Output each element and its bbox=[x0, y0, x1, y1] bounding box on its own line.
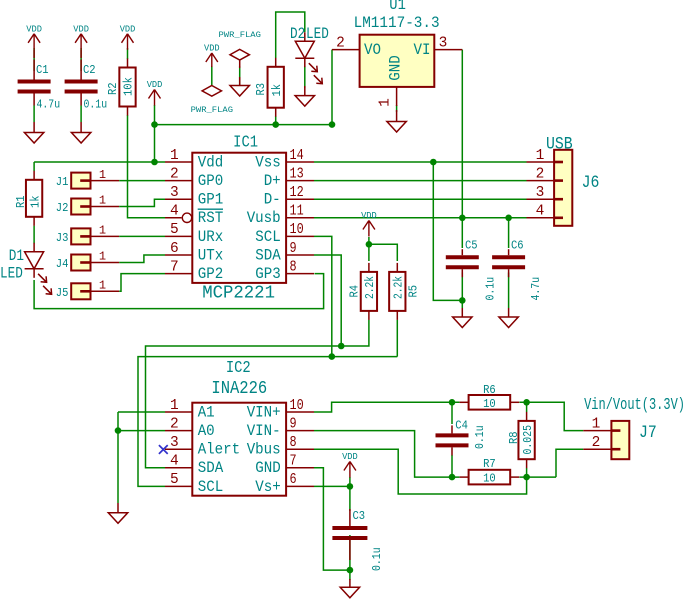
IC1 pin 14 (Vss) bbox=[255, 148, 314, 172]
svg-text:VDD: VDD bbox=[361, 211, 377, 221]
wire VBUS to C5 top bbox=[461, 218, 463, 248]
junction bbox=[459, 297, 466, 304]
svg-text:1: 1 bbox=[99, 224, 106, 238]
svg-text:VIN+: VIN+ bbox=[247, 403, 281, 421]
svg-text:C4: C4 bbox=[455, 418, 468, 432]
wire J2 to GP1 bbox=[119, 199, 165, 206]
wire C3 bottom bbox=[349, 535, 351, 570]
IC2 INA226 body bbox=[192, 403, 286, 496]
svg-text:SDA: SDA bbox=[198, 459, 224, 477]
wire VIN+ to R6 bbox=[314, 402, 460, 412]
svg-text:IC2: IC2 bbox=[226, 358, 251, 377]
wire VDD to PWR_FLAG stem bbox=[211, 66, 213, 85]
regulator U1 LM1117-3.3 body bbox=[360, 35, 435, 87]
connector J3 bbox=[71, 228, 119, 244]
wire VDD rail to IC1 pin1 bbox=[34, 161, 165, 163]
resistor R1 box bbox=[26, 171, 42, 226]
junction bbox=[151, 159, 158, 166]
J6 pin 1 bbox=[527, 148, 555, 164]
svg-text:R7: R7 bbox=[483, 457, 496, 471]
wire R8 bottom bbox=[526, 468, 528, 477]
svg-text:VI: VI bbox=[414, 41, 431, 59]
svg-text:3: 3 bbox=[536, 185, 545, 201]
svg-text:D2: D2 bbox=[290, 25, 305, 43]
svg-text:14: 14 bbox=[290, 148, 304, 164]
wire VIN- to R7 bbox=[314, 431, 460, 478]
junction bbox=[459, 215, 466, 222]
IC1 pin 9 (SDA) bbox=[255, 241, 314, 265]
junction bbox=[347, 567, 354, 574]
wire R2 bottom to RST bbox=[128, 115, 166, 218]
svg-text:MCP2221: MCP2221 bbox=[202, 282, 275, 303]
wire D2 cathode to ground bbox=[304, 66, 306, 88]
svg-text:VDD: VDD bbox=[204, 44, 220, 54]
svg-text:6: 6 bbox=[170, 241, 179, 257]
IC1 pin 6 (UTx) bbox=[165, 241, 223, 265]
svg-text:13: 13 bbox=[290, 166, 304, 182]
svg-text:J6: J6 bbox=[582, 173, 600, 193]
svg-text:9: 9 bbox=[290, 416, 297, 432]
power VDD (R2) bbox=[120, 24, 136, 50]
svg-text:R4: R4 bbox=[348, 285, 362, 298]
svg-text:0.1u: 0.1u bbox=[484, 277, 498, 301]
junction bbox=[430, 159, 437, 166]
J6 pin 4 bbox=[527, 204, 555, 220]
IC1 pin 11 (Vusb) bbox=[247, 204, 314, 228]
wire C4 bottom to R7 row bbox=[451, 455, 453, 477]
svg-text:1: 1 bbox=[170, 398, 179, 414]
junction bbox=[151, 121, 158, 128]
wire R6 right to J7 pin1 bbox=[519, 402, 583, 430]
svg-text:2: 2 bbox=[536, 166, 545, 182]
IC2 pin 1 (A1) bbox=[165, 398, 215, 422]
svg-text:LED: LED bbox=[306, 25, 329, 43]
IC2 pin 2 (A0) bbox=[165, 416, 215, 440]
wire IC2 A1 to ground net bbox=[118, 411, 165, 413]
IC1 pin 7 (GP2) bbox=[165, 259, 223, 283]
svg-text:4: 4 bbox=[536, 204, 545, 220]
IC2 pin 10 (VIN+) bbox=[247, 398, 314, 422]
svg-text:INA226: INA226 bbox=[211, 378, 267, 399]
capacitor C6 plates bbox=[492, 249, 525, 277]
svg-text:J1: J1 bbox=[56, 175, 69, 189]
svg-text:1k: 1k bbox=[28, 195, 42, 208]
wire VDD to C1 bbox=[33, 48, 35, 71]
svg-text:2: 2 bbox=[170, 166, 179, 182]
wire C1 to ground bbox=[33, 106, 35, 123]
wire R3 top to D2 anode bbox=[276, 12, 305, 58]
svg-text:R1: R1 bbox=[14, 195, 28, 208]
svg-text:Vin/Vout(3.3V): Vin/Vout(3.3V) bbox=[584, 396, 685, 415]
wire SCL up to R5 bottom bbox=[396, 320, 398, 357]
LED D2 symbol bbox=[295, 32, 322, 83]
svg-text:J4: J4 bbox=[56, 257, 69, 271]
J7 pin 2 bbox=[583, 435, 611, 451]
svg-text:0.025: 0.025 bbox=[521, 425, 535, 455]
IC1 pin 10 (SCL) bbox=[255, 222, 314, 246]
svg-text:1k: 1k bbox=[270, 84, 284, 97]
svg-text:GP0: GP0 bbox=[198, 172, 224, 190]
U1 pin 2 (VO) bbox=[332, 35, 381, 59]
svg-text:1: 1 bbox=[378, 98, 394, 107]
wire to ground bbox=[349, 570, 351, 580]
svg-text:J7: J7 bbox=[639, 423, 657, 443]
wire rail to R1 top bbox=[33, 162, 35, 171]
wire to R8 top bbox=[526, 402, 528, 412]
resistor R8 box bbox=[518, 412, 534, 468]
svg-text:0.1u: 0.1u bbox=[473, 425, 487, 449]
svg-text:D1: D1 bbox=[9, 247, 24, 265]
ground under C6 bbox=[499, 317, 518, 328]
svg-text:VDD: VDD bbox=[73, 24, 89, 34]
junction bbox=[523, 399, 530, 406]
junction bbox=[329, 121, 336, 128]
wire SDA to R4 bottom bbox=[341, 320, 369, 346]
svg-text:2: 2 bbox=[592, 435, 601, 451]
ground under C3 bbox=[340, 587, 359, 598]
IC1 pin 1 (Vdd) bbox=[165, 148, 223, 172]
svg-text:A0: A0 bbox=[198, 422, 215, 440]
J7 pin 1 bbox=[583, 416, 611, 432]
wire rail up to U1 VO bbox=[331, 50, 333, 125]
svg-text:10k: 10k bbox=[122, 77, 136, 96]
svg-text:PWR_FLAG: PWR_FLAG bbox=[191, 106, 234, 115]
capacitor C3 plates bbox=[332, 509, 367, 560]
capacitor C1 plates bbox=[18, 60, 51, 106]
svg-text:C2: C2 bbox=[83, 63, 96, 77]
wire Vusb to USB pin4 bbox=[314, 217, 527, 219]
wire VDD to C2 bbox=[80, 48, 82, 71]
wire J3 to URx bbox=[119, 235, 165, 237]
svg-text:10: 10 bbox=[483, 397, 496, 411]
wire R6 row to C4 top bbox=[451, 402, 453, 424]
svg-text:R6: R6 bbox=[483, 383, 496, 397]
wire SCL from IC1 pin10 bbox=[314, 236, 397, 356]
wire D- to USB pin3 bbox=[314, 198, 527, 200]
svg-text:12: 12 bbox=[290, 185, 304, 201]
svg-text:R8: R8 bbox=[507, 431, 521, 444]
wire VDD to R2 bbox=[127, 48, 129, 59]
svg-text:Vss: Vss bbox=[255, 153, 281, 171]
wire IC2 A0 to ground net bbox=[118, 430, 165, 432]
svg-text:2: 2 bbox=[170, 416, 179, 432]
svg-text:10: 10 bbox=[290, 222, 304, 238]
svg-text:7: 7 bbox=[290, 454, 297, 470]
svg-text:R5: R5 bbox=[407, 285, 421, 298]
svg-text:3: 3 bbox=[170, 185, 179, 201]
svg-text:U1: U1 bbox=[389, 0, 406, 14]
svg-text:2.2k: 2.2k bbox=[363, 276, 377, 299]
svg-text:C6: C6 bbox=[511, 238, 524, 252]
svg-text:10: 10 bbox=[483, 472, 496, 486]
svg-text:Alert: Alert bbox=[198, 441, 241, 459]
J6 pin 2 bbox=[527, 166, 555, 182]
junction bbox=[272, 121, 279, 128]
svg-text:VDD: VDD bbox=[342, 452, 358, 462]
wire J5 to GP2 bbox=[119, 274, 165, 292]
svg-text:7: 7 bbox=[170, 259, 179, 275]
wire D1 cathode to GP3 bbox=[34, 274, 324, 309]
svg-text:PWR_FLAG: PWR_FLAG bbox=[219, 31, 262, 40]
power VDD (R4 R5) bbox=[361, 211, 377, 237]
svg-text:8: 8 bbox=[290, 435, 297, 451]
wire Vss to USB pin1 bbox=[314, 161, 527, 163]
IC1 pin 3 (GP1) bbox=[165, 185, 223, 209]
IC1 pin 4 (RST) bbox=[165, 204, 223, 228]
resistor R6 box bbox=[460, 395, 520, 410]
svg-text:SCL: SCL bbox=[198, 478, 224, 496]
resistor R2 box bbox=[119, 59, 135, 116]
svg-text:R3: R3 bbox=[254, 83, 268, 96]
svg-text:GND: GND bbox=[255, 459, 281, 477]
junction bbox=[449, 474, 456, 481]
svg-text:D-: D- bbox=[264, 191, 281, 209]
ground under C5 bbox=[453, 317, 472, 328]
svg-text:VDD: VDD bbox=[147, 80, 163, 90]
IC2 pin 7 (GND) bbox=[255, 454, 314, 478]
IC2 pin 5 (SCL) bbox=[165, 472, 223, 496]
wire VDD to R4 top bbox=[368, 237, 370, 261]
connector J7 Vin/Vout bbox=[611, 421, 629, 459]
IC1 pin 5 (URx) bbox=[165, 222, 223, 246]
IC2 pin 4 (SDA) bbox=[165, 454, 224, 478]
ground under U1 bbox=[387, 122, 406, 133]
svg-text:LM1117-3.3: LM1117-3.3 bbox=[354, 14, 440, 32]
svg-text:C1: C1 bbox=[36, 63, 49, 77]
svg-text:4.7u: 4.7u bbox=[529, 277, 543, 301]
wire J1 to GP0 bbox=[119, 180, 165, 182]
svg-text:4.7u: 4.7u bbox=[37, 97, 61, 111]
svg-text:SDA: SDA bbox=[255, 246, 281, 264]
svg-text:GND: GND bbox=[387, 55, 405, 81]
svg-text:USB: USB bbox=[546, 135, 573, 155]
svg-text:5: 5 bbox=[170, 472, 179, 488]
IC2 pin 9 (VIN-) bbox=[247, 416, 314, 440]
connector J4 bbox=[71, 255, 119, 271]
svg-text:SCL: SCL bbox=[255, 228, 281, 246]
wire SDA from IC1 pin9 bbox=[314, 255, 341, 346]
power VDD (Vs+) bbox=[342, 452, 358, 478]
junction bbox=[347, 483, 354, 490]
wire GND net down to C5 bottom bbox=[433, 162, 462, 300]
U1 pin 3 (VI) bbox=[414, 35, 463, 59]
connector J2 bbox=[71, 199, 119, 215]
svg-text:GP2: GP2 bbox=[198, 265, 224, 283]
svg-text:VO: VO bbox=[364, 41, 381, 59]
svg-text:GP3: GP3 bbox=[255, 265, 281, 283]
junction bbox=[366, 241, 373, 248]
connector J6 USB bbox=[554, 150, 572, 226]
svg-text:J3: J3 bbox=[56, 231, 69, 245]
svg-text:Vbus: Vbus bbox=[247, 441, 281, 459]
junction bbox=[329, 353, 336, 360]
wire IC2 GND to C3 ground bbox=[314, 468, 350, 570]
svg-text:R2: R2 bbox=[106, 82, 120, 95]
wire J4 to UTx bbox=[119, 255, 165, 263]
svg-text:4: 4 bbox=[170, 204, 179, 220]
svg-text:2.2k: 2.2k bbox=[391, 276, 405, 299]
svg-text:9: 9 bbox=[290, 241, 297, 257]
svg-text:C3: C3 bbox=[353, 509, 366, 523]
svg-text:GP1: GP1 bbox=[198, 191, 224, 209]
no-connect X on IC2 pin 3 bbox=[159, 445, 168, 454]
op-amp U? — IC1 MCP2221 body bbox=[192, 153, 286, 283]
svg-text:VIN-: VIN- bbox=[247, 422, 281, 440]
capacitor C5 plates bbox=[446, 249, 479, 277]
svg-text:3: 3 bbox=[439, 35, 448, 51]
svg-text:1: 1 bbox=[99, 250, 106, 264]
resistor R5 box bbox=[389, 263, 405, 320]
wire PWR_FLAG to ground stem bbox=[239, 66, 241, 86]
wire U1 GND pin to ground bbox=[396, 105, 398, 112]
svg-text:0.1u: 0.1u bbox=[84, 97, 108, 111]
svg-text:1: 1 bbox=[536, 148, 545, 164]
wire C6 bottom to ground bbox=[508, 273, 510, 309]
svg-text:2: 2 bbox=[336, 35, 345, 51]
svg-text:5: 5 bbox=[170, 222, 179, 238]
IC2 pin 8 (Vbus) bbox=[247, 435, 314, 459]
wire C5 bottom to ground bbox=[461, 273, 463, 309]
wire to J7 pin2 bbox=[556, 449, 583, 477]
IC2 pin 3 (Alert) bbox=[165, 435, 240, 459]
wire D+ to USB pin2 bbox=[314, 180, 527, 182]
svg-text:1: 1 bbox=[592, 416, 601, 432]
ground under IC2 A0/A1 bbox=[108, 513, 127, 524]
wire VBUS to C6 top bbox=[508, 218, 510, 248]
svg-text:3: 3 bbox=[170, 435, 179, 451]
IC1 pin 8 (GP3) bbox=[255, 259, 314, 283]
svg-text:A1: A1 bbox=[198, 403, 215, 421]
wire ground net down bbox=[117, 412, 119, 503]
capacitor C4 plates bbox=[436, 425, 469, 455]
resistor R7 box bbox=[460, 470, 520, 485]
wire VDD to R5 top bbox=[369, 244, 397, 261]
capacitor C2 plates bbox=[65, 60, 98, 106]
wire SDA to IC2 pin4 bbox=[146, 346, 342, 468]
wire U1 VI down to VBUS row bbox=[461, 50, 463, 218]
IC2 pin 6 (Vs+) bbox=[255, 472, 314, 496]
power VDD (C1) bbox=[26, 24, 42, 50]
ground under PWR_FLAG bbox=[230, 86, 249, 97]
junction bbox=[505, 215, 512, 222]
wire R7 right junction bbox=[519, 476, 556, 478]
wire VDD down to pin1 junction bbox=[154, 105, 156, 162]
svg-text:8: 8 bbox=[290, 259, 297, 275]
svg-text:10: 10 bbox=[290, 398, 304, 414]
svg-text:11: 11 bbox=[290, 204, 304, 220]
power flag PWR_FLAG with GND bbox=[219, 31, 262, 68]
svg-text:C5: C5 bbox=[465, 238, 478, 252]
wire VDD junction to C3 top bbox=[349, 477, 351, 511]
ground under C1 bbox=[24, 133, 43, 144]
wire R3 bottom to rail bbox=[275, 116, 277, 125]
resistor R3 box bbox=[268, 58, 284, 117]
svg-text:IC1: IC1 bbox=[233, 132, 258, 151]
svg-text:0.1u: 0.1u bbox=[370, 547, 384, 571]
svg-text:1: 1 bbox=[99, 279, 106, 293]
svg-text:UTx: UTx bbox=[198, 246, 224, 264]
LED D1 symbol bbox=[25, 243, 52, 294]
power VDD (rail) bbox=[147, 80, 163, 106]
power VDD (C2) bbox=[73, 24, 89, 50]
resistor R4 box bbox=[361, 263, 377, 320]
wire 3V3 rail bbox=[155, 124, 333, 126]
svg-text:Vusb: Vusb bbox=[247, 209, 281, 227]
svg-text:4: 4 bbox=[170, 454, 179, 470]
svg-text:D+: D+ bbox=[264, 172, 281, 190]
ground under C2 bbox=[71, 133, 90, 144]
IC1 pin 12 (D-) bbox=[264, 185, 314, 209]
svg-text:1: 1 bbox=[99, 168, 106, 182]
svg-text:LED: LED bbox=[0, 265, 23, 283]
wire Vs+ to VDD bbox=[314, 485, 350, 487]
junction bbox=[338, 343, 345, 350]
svg-text:J5: J5 bbox=[56, 286, 69, 300]
svg-text:J2: J2 bbox=[56, 201, 69, 215]
junction bbox=[523, 474, 530, 481]
wire C2 to ground bbox=[80, 106, 82, 123]
junction bbox=[115, 427, 122, 434]
U1 pin 1 (GND) bbox=[378, 55, 405, 107]
svg-text:VDD: VDD bbox=[26, 24, 42, 34]
svg-text:1: 1 bbox=[99, 194, 106, 208]
IC1 pin 2 (GP0) bbox=[165, 166, 223, 190]
connector J5 bbox=[71, 283, 119, 299]
svg-text:Vdd: Vdd bbox=[198, 153, 224, 171]
connector J1 bbox=[71, 173, 119, 189]
ground under D2 bbox=[295, 96, 314, 107]
wire R1 to D1 anode bbox=[33, 226, 35, 244]
svg-text:VDD: VDD bbox=[120, 24, 136, 34]
J6 pin 3 bbox=[527, 185, 555, 201]
wire Vbus to shunt bbox=[314, 449, 527, 494]
junction bbox=[449, 399, 456, 406]
svg-text:URx: URx bbox=[198, 228, 224, 246]
svg-text:Vs+: Vs+ bbox=[255, 478, 281, 496]
IC1 pin 13 (D+) bbox=[264, 166, 314, 190]
svg-text:RST: RST bbox=[198, 209, 224, 227]
power flag PWR_FLAG with VDD bbox=[191, 44, 234, 116]
svg-text:1: 1 bbox=[170, 148, 179, 164]
wire SCL to IC2 pin5 bbox=[138, 357, 332, 487]
svg-text:6: 6 bbox=[290, 472, 297, 488]
